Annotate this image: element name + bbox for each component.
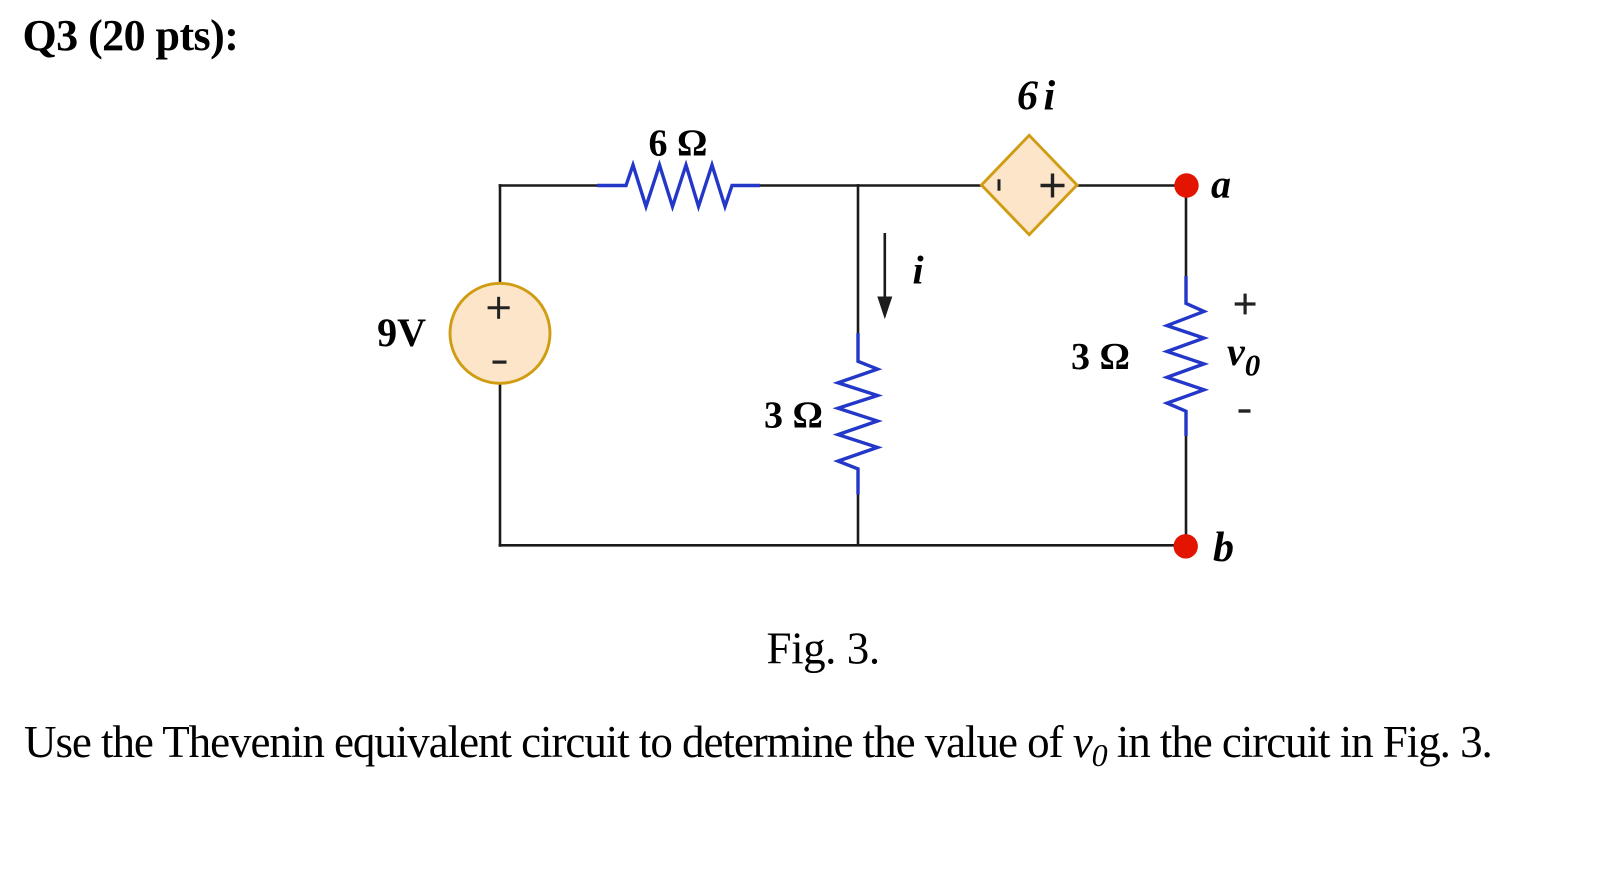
- wire middle vertical lower: [857, 494, 860, 546]
- label b: [1213, 525, 1234, 571]
- v0 minus sign: [1239, 409, 1251, 412]
- heading Q3 (20 pts):: [23, 11, 239, 60]
- voltage source minus sign: [493, 361, 507, 364]
- wire right vertical lower (resistor to node b): [1185, 435, 1188, 546]
- node b dot: [1174, 534, 1198, 558]
- label 6i: [1017, 74, 1056, 120]
- voltage source V1 9V circle: [450, 283, 550, 383]
- svg-text:b: b: [1213, 525, 1234, 571]
- svg-text:Fig. 3.: Fig. 3.: [767, 623, 880, 673]
- resistor R1 6 ohm (horizontal, top): [597, 165, 760, 207]
- svg-text:i: i: [913, 248, 924, 293]
- wire middle vertical upper: [857, 184, 860, 334]
- label v0: [1227, 329, 1260, 383]
- svg-text:6 Ω: 6 Ω: [649, 123, 708, 165]
- wire left vertical lower: [499, 383, 502, 547]
- dependent source minus tick: [998, 179, 1001, 190]
- svg-text:Q3 (20 pts):: Q3 (20 pts):: [23, 11, 239, 60]
- voltage source plus sign: [488, 297, 510, 319]
- svg-text:3 Ω: 3 Ω: [764, 395, 823, 437]
- label i: [913, 248, 924, 293]
- label a: [1211, 162, 1231, 207]
- label 6 ohm: [649, 123, 708, 165]
- svg-text:6i: 6i: [1017, 74, 1056, 120]
- wire top-left horizontal: [499, 184, 597, 187]
- wire top-right horizontal (diamond to node a): [1077, 184, 1186, 187]
- resistor R3 3 ohm (right vertical): [1167, 276, 1204, 436]
- resistor R2 3 ohm (middle vertical): [838, 333, 878, 495]
- node a dot: [1174, 173, 1198, 197]
- svg-text:Use the Thevenin equivalent ci: Use the Thevenin equivalent circuit to d…: [24, 717, 1492, 773]
- label 3 ohm (right): [1071, 336, 1130, 378]
- svg-text:9V: 9V: [377, 310, 426, 355]
- v0 plus sign: [1235, 294, 1256, 315]
- dependent source plus sign: [1041, 174, 1065, 198]
- svg-text:3 Ω: 3 Ω: [1071, 336, 1130, 378]
- wire bottom horizontal: [499, 544, 1186, 547]
- dependent source U1 diamond (6i): [982, 135, 1078, 234]
- problem statement sentence: [24, 717, 1492, 773]
- svg-text:v0: v0: [1227, 329, 1260, 383]
- label 3 ohm (middle): [764, 395, 823, 437]
- wire left vertical upper: [499, 184, 502, 284]
- wire top-middle horizontal (resistor to diamond): [760, 184, 982, 187]
- svg-text:a: a: [1211, 162, 1231, 207]
- current arrow i (middle branch): [877, 233, 892, 319]
- caption Fig. 3.: [767, 623, 880, 673]
- wire right vertical upper (node a to resistor): [1185, 186, 1188, 278]
- label 9V: [377, 310, 426, 355]
